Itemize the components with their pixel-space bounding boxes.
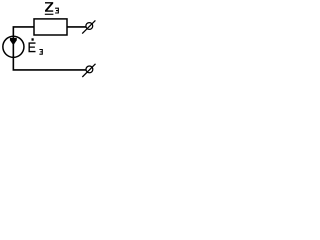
subscript 3 of Z3 bbox=[55, 8, 58, 13]
EMF source E3 (circle) bbox=[3, 36, 24, 57]
bottom terminal (circle with slash) bbox=[86, 66, 93, 73]
label E3: letter E (drawn path) bbox=[29, 42, 36, 52]
wire from box to top terminal bbox=[67, 26, 86, 28]
dot above E bbox=[32, 38, 34, 40]
underline of Z bbox=[45, 14, 54, 15]
arrowhead of source arrow (points down) bbox=[10, 38, 17, 44]
subscript 3 of E3 bbox=[39, 50, 42, 55]
top terminal (circle with slash) bbox=[86, 23, 93, 30]
wire left loop: top wire, left wire, bottom wire bbox=[13, 27, 86, 70]
label Z3: letter Z (drawn path) bbox=[45, 2, 53, 12]
impedance Z3 (box) bbox=[34, 19, 67, 35]
